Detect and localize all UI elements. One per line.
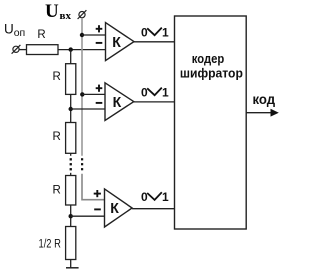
svg-text:шифратор: шифратор: [180, 65, 243, 80]
label 0v1 (U3 output): [141, 190, 169, 204]
ground: [66, 267, 79, 269]
wire R3 to half-R: [70, 205, 72, 227]
svg-text:1: 1: [162, 190, 169, 204]
svg-text:1/2 R: 1/2 R: [39, 238, 61, 250]
svg-text:кодер: кодер: [192, 51, 225, 66]
svg-text:R: R: [52, 131, 60, 143]
wire U3 output: [132, 208, 175, 210]
svg-text:оп: оп: [14, 27, 26, 39]
resistor R3 (vertical): [66, 176, 76, 206]
svg-text:К: К: [112, 35, 121, 51]
svg-text:R: R: [52, 71, 60, 83]
wire Uвх to U1 plus input: [82, 34, 106, 36]
op-amp U1 (comparator K): [96, 23, 134, 61]
svg-text:код: код: [253, 91, 276, 107]
svg-text:R: R: [37, 29, 45, 41]
wire node1 to comparator U1 minus input: [58, 49, 106, 51]
wire node2 to U2 minus input: [71, 108, 105, 110]
resistor R (horizontal): [27, 45, 59, 55]
terminal Uоп: [12, 45, 21, 54]
svg-text:К: К: [113, 95, 122, 111]
wire dots (ellipsis on Uвх line): [81, 158, 83, 170]
node Uвх branch 2: [80, 92, 84, 96]
label Uвх: [45, 1, 71, 22]
svg-text:1: 1: [162, 85, 169, 99]
wire stub below R2: [70, 153, 72, 156]
svg-text:0: 0: [141, 85, 148, 99]
wire terminal to R: [19, 49, 26, 51]
resistor R1 (vertical): [66, 64, 76, 95]
svg-text:1: 1: [162, 25, 169, 39]
label 0v1 (U2 output): [141, 85, 169, 99]
svg-text:К: К: [110, 201, 119, 217]
svg-text:U: U: [45, 1, 59, 22]
terminal Uвх: [78, 10, 87, 19]
svg-text:0: 0: [141, 25, 148, 39]
label Uоп: [4, 21, 25, 39]
wire R1 to R2: [70, 94, 72, 122]
wire Uвх vertical (gray) lower segment with bend to U3 plus: [82, 174, 105, 200]
encoder block (кодер шифратор): [175, 16, 247, 229]
wire dots (ellipsis on ladder): [70, 158, 72, 170]
resistor 1/2 R (vertical): [66, 227, 76, 260]
node Uвх branch 1: [80, 33, 84, 37]
wire node3 to U3 minus input: [71, 215, 105, 217]
wire U1 output: [134, 41, 175, 43]
wire stub above R3: [70, 173, 72, 176]
wire U2 output: [134, 101, 175, 103]
svg-text:U: U: [4, 21, 14, 36]
wire node1 down to R1: [70, 50, 72, 64]
wire output arrow (код): [246, 109, 279, 117]
wire Uвх to U2 plus input: [82, 93, 105, 95]
op-amp U2 (comparator K): [96, 83, 134, 121]
wire Uвх vertical (gray) upper segment: [81, 18, 83, 156]
wire half-R to ground: [70, 260, 72, 268]
label 0v1 (U1 output): [141, 25, 169, 39]
node 2: [69, 107, 73, 111]
op-amp U3 (comparator K): [94, 189, 132, 227]
svg-text:0: 0: [141, 190, 148, 204]
node 1 (ladder top): [69, 47, 73, 51]
svg-text:R: R: [52, 184, 60, 196]
svg-text:вх: вх: [60, 10, 72, 22]
node 3: [69, 214, 73, 218]
resistor R2 (vertical): [66, 123, 76, 154]
